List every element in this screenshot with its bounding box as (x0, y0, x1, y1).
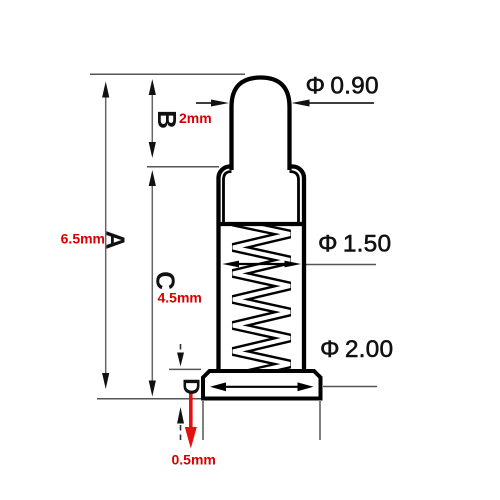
svg-text:Φ 0.90: Φ 0.90 (306, 73, 379, 100)
svg-text:6.5mm: 6.5mm (61, 231, 105, 247)
svg-text:Φ 1.50: Φ 1.50 (318, 231, 391, 258)
svg-text:C: C (151, 271, 181, 290)
svg-text:4.5mm: 4.5mm (158, 290, 202, 306)
svg-text:2mm: 2mm (179, 110, 212, 126)
svg-text:D: D (179, 378, 205, 395)
svg-text:0.5mm: 0.5mm (172, 452, 216, 468)
svg-text:Φ 2.00: Φ 2.00 (320, 336, 393, 363)
svg-text:B: B (152, 110, 182, 129)
svg-text:A: A (101, 231, 131, 250)
